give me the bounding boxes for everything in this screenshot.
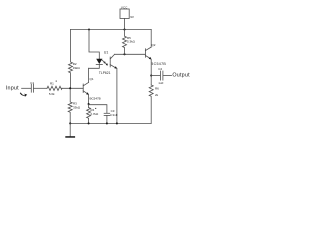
svg-text:BC547B: BC547B <box>90 97 101 101</box>
wire VCC stub <box>124 19 126 30</box>
svg-text:C2: C2 <box>158 67 162 71</box>
node U1 emitter/rail <box>116 122 118 124</box>
wire emitter to C2 <box>151 75 160 77</box>
wire Q1 emitter down <box>88 95 90 108</box>
svg-text:2.7kΩ: 2.7kΩ <box>90 112 99 116</box>
node top-rail/LED junction <box>88 28 90 30</box>
svg-text:1uF: 1uF <box>158 81 163 85</box>
resistor R2 <box>69 30 81 89</box>
svg-text:2k: 2k <box>155 93 159 97</box>
resistor R1 <box>47 81 62 96</box>
wire Q1 collector <box>88 68 90 82</box>
wire Q2 emitter down <box>150 59 152 85</box>
wire R1 to node <box>62 87 83 89</box>
svg-text:Output: Output <box>172 72 190 78</box>
svg-text:Q1: Q1 <box>90 77 94 81</box>
node Q1 emitter / C3 branch <box>88 103 90 105</box>
node input bias junction <box>69 87 71 89</box>
resistor R3 <box>68 88 81 123</box>
wire input lead <box>22 87 31 89</box>
wire C2 to output <box>164 75 172 77</box>
svg-text:33kΩ: 33kΩ <box>73 106 81 110</box>
svg-text:U1: U1 <box>104 50 108 54</box>
LED of U1 <box>96 59 102 65</box>
light arrows of U1 <box>102 60 108 65</box>
resistor R6 <box>149 85 159 123</box>
node ground junction <box>69 122 71 124</box>
wire C1 to R1 <box>34 87 47 89</box>
svg-text:9V: 9V <box>130 15 134 19</box>
svg-text:Input: Input <box>6 86 19 92</box>
resistor R4 <box>87 108 99 124</box>
node emitter/C2 junction <box>150 74 152 76</box>
svg-text:BC547B: BC547B <box>151 62 166 66</box>
transistor Q2 BC547B <box>145 43 166 66</box>
input signal arrow <box>20 93 27 97</box>
svg-text:R6: R6 <box>155 87 159 91</box>
svg-text:3.3nF: 3.3nF <box>110 113 118 117</box>
node R5/base junction <box>123 53 125 55</box>
svg-text:33kΩ: 33kΩ <box>73 66 81 70</box>
wire bottom rail <box>70 122 151 124</box>
optocoupler U1 TLP621 LED branch wire <box>89 30 99 59</box>
phototransistor of U1 <box>110 54 117 69</box>
capacitor C1 <box>30 81 34 92</box>
svg-text:5.3kΩ: 5.3kΩ <box>127 40 136 44</box>
svg-text:R1: R1 <box>50 81 54 85</box>
wire phototransistor emitter down <box>116 68 118 123</box>
svg-text:TLP621: TLP621 <box>99 71 111 75</box>
wire LED cathode to Q1 collector <box>89 64 100 68</box>
wire emitter node to C3 <box>89 105 107 113</box>
capacitor C3 <box>104 109 118 117</box>
capacitor C2 <box>158 67 163 85</box>
node R4/rail <box>88 122 90 124</box>
svg-text:Q2: Q2 <box>151 43 155 47</box>
transistor Q1 BC547B <box>83 77 100 101</box>
svg-text:5.6k: 5.6k <box>49 92 55 96</box>
wire C3 bottom <box>106 115 108 123</box>
ground <box>65 123 75 137</box>
VCC supply box <box>120 5 134 18</box>
wire Q2 collector to rail <box>150 30 152 48</box>
wire phototransistor collector to Q2 base <box>115 53 146 55</box>
node C3/rail <box>106 122 108 124</box>
node top-rail/VCC junction <box>123 28 125 30</box>
wire top rail <box>71 29 152 31</box>
resistor R5 <box>123 30 136 55</box>
